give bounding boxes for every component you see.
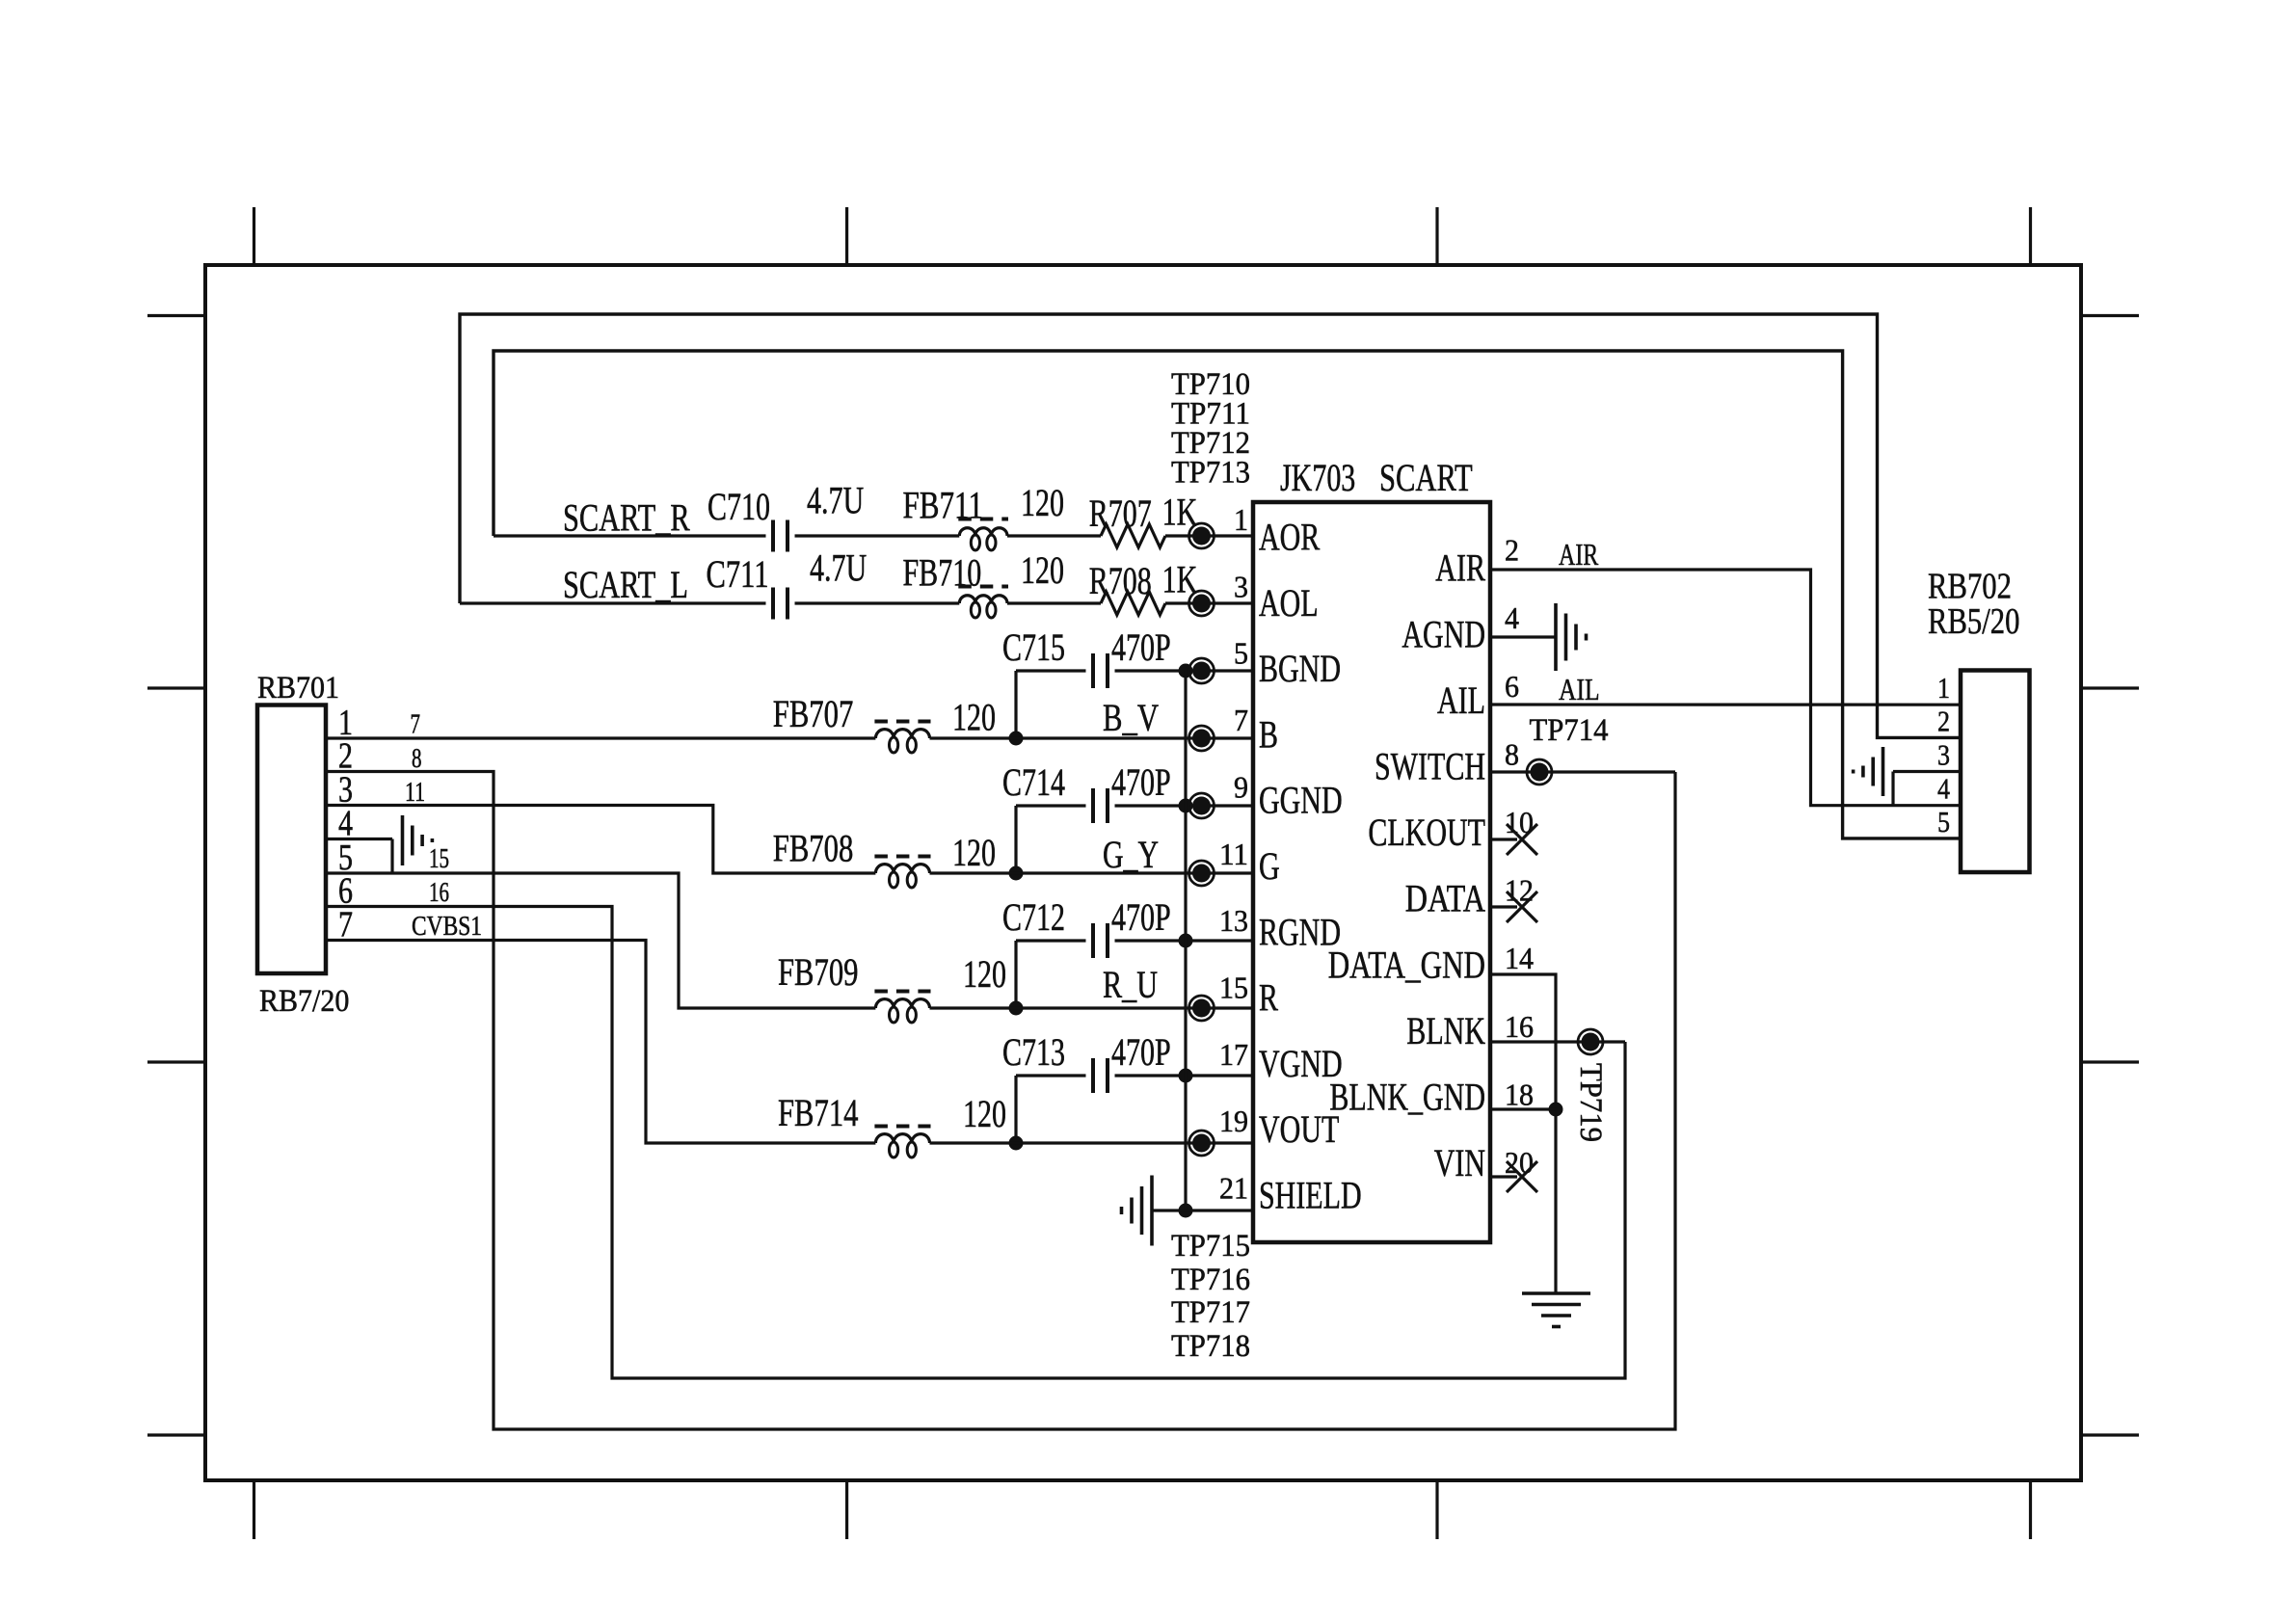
wire C713 down to signal row	[1014, 1076, 1017, 1143]
svg-text:120: 120	[952, 695, 996, 738]
svg-text:120: 120	[1021, 548, 1064, 592]
wire C714 down to signal row	[1014, 806, 1017, 873]
svg-text:2: 2	[1505, 533, 1519, 568]
svg-text:3: 3	[1937, 738, 1950, 772]
svg-text:16: 16	[429, 878, 449, 908]
svg-text:C712: C712	[1002, 895, 1065, 939]
wire SCART_L loop to RB702 pin2	[460, 314, 1961, 737]
svg-text:VIN: VIN	[1434, 1141, 1485, 1184]
svg-text:DATA_GND: DATA_GND	[1328, 943, 1485, 986]
wire RB702 pin3-pin4 tie	[1891, 772, 1894, 806]
svg-text:C713: C713	[1002, 1030, 1065, 1074]
resistor R707	[1101, 524, 1165, 547]
resistor R708	[1101, 592, 1165, 615]
wire RB701 pin5 net 15 to FB709	[326, 873, 875, 1008]
wire AIL pin6 to RB702 pin1	[1490, 703, 1961, 705]
svg-text:BGND: BGND	[1259, 647, 1341, 690]
svg-text:AIR: AIR	[1435, 546, 1485, 590]
wire SCART_R to C710	[494, 534, 766, 537]
svg-text:TP719: TP719	[1573, 1063, 1608, 1142]
capacitor C710	[773, 520, 788, 552]
test point TP719 at BLNK	[1578, 1029, 1603, 1054]
svg-text:BLNK: BLNK	[1406, 1009, 1485, 1052]
junction bus at pin 5 row	[1179, 664, 1193, 678]
wire C715 left	[1016, 669, 1086, 672]
wire C712 to pin 13	[1115, 939, 1254, 942]
wire SCART_R loop to RB702 pin5	[494, 351, 1961, 838]
svg-text:FB711: FB711	[903, 483, 984, 526]
test point at pin19 VOUT	[1189, 1131, 1215, 1156]
wire R708 to pin3 AOL	[1165, 601, 1253, 604]
connector JK703 SCART body	[1253, 502, 1490, 1242]
svg-text:AIL: AIL	[1437, 678, 1485, 722]
wire C715 down to signal row	[1014, 671, 1017, 738]
svg-text:120: 120	[1021, 481, 1064, 524]
ground bus vertical	[1184, 671, 1187, 1211]
wire FB714 to pin19 VOUT	[930, 1141, 1254, 1144]
ferrite bead FB707	[874, 722, 930, 754]
svg-text:19: 19	[1219, 1104, 1248, 1138]
wire RB702 pin3	[1893, 770, 1961, 773]
svg-text:G_Y: G_Y	[1103, 833, 1159, 876]
junction C713 tap on signal row	[1009, 1136, 1024, 1151]
svg-text:4: 4	[1937, 772, 1950, 806]
svg-text:C714: C714	[1002, 760, 1065, 804]
wire C714 to pin 9	[1115, 804, 1254, 807]
ferrite bead FB708	[874, 857, 930, 889]
test point at pin15 R	[1189, 996, 1215, 1021]
wire C713 left	[1016, 1074, 1086, 1077]
svg-text:BLNK_GND: BLNK_GND	[1329, 1076, 1485, 1119]
svg-text:SCART_R: SCART_R	[563, 496, 690, 540]
wire ground to pin21 SHIELD	[1153, 1209, 1253, 1211]
capacitor C714	[1093, 788, 1108, 823]
svg-text:R708: R708	[1089, 559, 1152, 602]
wire C710 to FB711	[795, 534, 960, 537]
ground (RB702 pins 3-4)	[1854, 747, 1883, 796]
wire RB701 pin7 CVBS1 to FB714	[326, 941, 875, 1144]
stub pin 20	[1490, 1175, 1517, 1178]
wire FB710 to R708	[1007, 601, 1101, 604]
test point TP710 at pin1	[1189, 523, 1215, 548]
ground (RB701 pins 4-5)	[403, 815, 433, 865]
svg-text:B_V: B_V	[1103, 696, 1159, 739]
svg-text:SHIELD: SHIELD	[1259, 1174, 1362, 1217]
svg-text:CVBS1: CVBS1	[412, 912, 482, 942]
svg-text:AIL: AIL	[1559, 672, 1600, 706]
junction C712 tap on signal row	[1009, 1001, 1024, 1016]
junction C714 tap on signal row	[1009, 866, 1024, 881]
svg-text:13: 13	[1219, 903, 1248, 938]
junction BLNK_GND on ground drop	[1549, 1103, 1563, 1117]
svg-text:AGND: AGND	[1402, 612, 1485, 655]
svg-text:FB714: FB714	[778, 1091, 859, 1134]
svg-text:AOR: AOR	[1259, 516, 1321, 559]
no-connect X pin 20	[1507, 1161, 1537, 1192]
wire RB701 pin4 to ground	[326, 838, 392, 840]
capacitor C715	[1093, 653, 1108, 688]
svg-text:3: 3	[1234, 569, 1248, 603]
test point TP711 at pin3	[1189, 591, 1215, 616]
wire RB701 pin2 net 8 to SWITCH pin8	[326, 772, 1675, 1430]
capacitor C711	[773, 588, 788, 620]
svg-text:SCART_L: SCART_L	[563, 563, 688, 606]
connector RB702 body	[1961, 671, 2030, 873]
svg-text:470P: 470P	[1111, 625, 1171, 669]
no-connect X pin 12	[1507, 891, 1537, 922]
wire RB701 pin6 net 16 to BLNK pin16	[326, 907, 1625, 1379]
svg-text:470P: 470P	[1111, 760, 1171, 804]
wire C712 down to signal row	[1014, 941, 1017, 1008]
svg-text:RB5/20: RB5/20	[1928, 601, 2019, 642]
junction bus at pin 13 row	[1179, 934, 1193, 948]
wire C715 to pin 5	[1115, 669, 1254, 672]
svg-text:14: 14	[1505, 941, 1534, 975]
test point at pin9 GGND	[1189, 793, 1215, 818]
wire C713 to pin 17	[1115, 1074, 1254, 1077]
svg-text:8: 8	[412, 744, 422, 774]
svg-text:TP715: TP715	[1171, 1229, 1250, 1264]
stub pin 10	[1490, 838, 1517, 840]
svg-text:11: 11	[1219, 837, 1248, 871]
svg-text:C711: C711	[707, 552, 769, 596]
svg-text:5: 5	[1937, 805, 1950, 838]
svg-text:4.7U: 4.7U	[807, 479, 864, 522]
earth ground symbol (DATA_GND/BLNK_GND)	[1522, 1293, 1590, 1327]
svg-text:SWITCH: SWITCH	[1375, 745, 1485, 788]
border frame	[205, 265, 2081, 1480]
wire C711 to FB710	[795, 601, 960, 604]
svg-text:11: 11	[405, 778, 425, 808]
svg-text:1: 1	[1937, 671, 1950, 705]
wire AIR pin2 to RB702 pin4	[1490, 570, 1893, 806]
svg-text:7: 7	[411, 710, 421, 740]
ground (AGND)	[1556, 603, 1587, 671]
svg-text:FB707: FB707	[773, 692, 854, 735]
svg-text:FB709: FB709	[778, 950, 859, 994]
svg-text:SCART: SCART	[1379, 456, 1473, 499]
svg-text:GGND: GGND	[1259, 779, 1343, 822]
wire C712 left	[1016, 939, 1086, 942]
wire FB711 to R707	[1007, 534, 1101, 537]
wire BLNK_GND pin18	[1490, 1107, 1556, 1110]
svg-text:470P: 470P	[1111, 895, 1171, 939]
junction bus at pin 9 row	[1179, 799, 1193, 813]
svg-text:AIR: AIR	[1559, 537, 1599, 572]
svg-text:16: 16	[1505, 1009, 1534, 1044]
wire SCART_L to C711	[460, 601, 766, 604]
svg-text:G: G	[1259, 844, 1280, 888]
svg-text:4: 4	[1505, 600, 1519, 635]
stub pin 12	[1490, 905, 1517, 908]
svg-text:6: 6	[1505, 669, 1519, 704]
svg-text:9: 9	[1234, 769, 1248, 804]
svg-text:FB708: FB708	[773, 827, 854, 870]
wire C714 left	[1016, 804, 1086, 807]
ferrite bead FB709	[874, 992, 930, 1024]
wire RB701 pin4-pin5 tie	[390, 839, 393, 874]
svg-text:RB7/20: RB7/20	[259, 984, 349, 1019]
junction C715 tap on signal row	[1009, 732, 1024, 746]
wire DATA_GND pin14 down to ground	[1490, 974, 1556, 1293]
wire RB702 pin4	[1893, 804, 1961, 807]
wire SWITCH pin8 to net 8 corner	[1490, 770, 1675, 773]
svg-text:17: 17	[1219, 1037, 1248, 1072]
svg-text:TP714: TP714	[1530, 713, 1609, 748]
ground (SHIELD)	[1122, 1176, 1153, 1246]
svg-text:R: R	[1259, 976, 1278, 1020]
wire R707 to pin1 AOR	[1165, 534, 1253, 537]
ferrite bead FB714	[874, 1127, 930, 1158]
svg-text:8: 8	[1505, 736, 1519, 771]
capacitor C712	[1093, 923, 1108, 958]
svg-text:5: 5	[1234, 636, 1248, 671]
svg-text:18: 18	[1505, 1077, 1534, 1111]
wire FB707 to pin7 B	[930, 736, 1254, 739]
test point at pin11 G	[1189, 861, 1215, 886]
wire BLNK pin16	[1490, 1040, 1625, 1043]
svg-text:470P: 470P	[1111, 1030, 1171, 1074]
svg-text:120: 120	[963, 952, 1006, 996]
ferrite bead FB710	[958, 587, 1008, 619]
svg-text:R707: R707	[1089, 492, 1152, 535]
svg-text:C715: C715	[1002, 625, 1065, 669]
test point at pin5 BGND	[1189, 658, 1215, 683]
svg-text:TP718: TP718	[1171, 1329, 1250, 1364]
junction bus at pin 17 row	[1179, 1069, 1193, 1083]
svg-text:1: 1	[1234, 502, 1248, 537]
wire AGND pin4 to ground	[1490, 635, 1556, 638]
svg-text:TP716: TP716	[1171, 1263, 1250, 1297]
svg-text:21: 21	[1219, 1171, 1248, 1206]
svg-text:B: B	[1259, 712, 1278, 756]
svg-text:15: 15	[1219, 970, 1248, 1004]
connector RB701 body	[257, 705, 326, 974]
test point at pin7 B	[1189, 726, 1215, 751]
wire RB701 pin3 net 11 to FB708	[326, 806, 875, 874]
wire RB701 pin1 net 7 to FB707	[326, 736, 875, 739]
test point TP714 at SWITCH	[1527, 759, 1552, 785]
ferrite bead FB711	[958, 519, 1008, 551]
wire FB709 to pin15 R	[930, 1006, 1254, 1009]
svg-text:C710: C710	[707, 485, 770, 528]
capacitor C713	[1093, 1058, 1108, 1093]
svg-text:AOL: AOL	[1259, 581, 1319, 625]
svg-text:15: 15	[429, 844, 449, 874]
svg-text:JK703: JK703	[1280, 456, 1355, 499]
svg-text:4.7U: 4.7U	[810, 546, 867, 590]
svg-text:RB701: RB701	[257, 671, 339, 705]
svg-text:DATA: DATA	[1405, 877, 1485, 920]
no-connect X pin 10	[1507, 824, 1537, 855]
junction bus at pin 21 SHIELD row	[1179, 1204, 1193, 1218]
svg-text:120: 120	[952, 831, 996, 874]
svg-text:120: 120	[963, 1092, 1006, 1135]
svg-text:FB710: FB710	[903, 550, 982, 594]
svg-text:7: 7	[338, 905, 353, 945]
svg-text:VOUT: VOUT	[1259, 1107, 1339, 1151]
svg-text:R_U: R_U	[1103, 963, 1158, 1006]
svg-text:7: 7	[1234, 703, 1248, 737]
svg-text:TP713: TP713	[1171, 456, 1250, 491]
svg-text:CLKOUT: CLKOUT	[1368, 811, 1485, 854]
wire FB708 to pin11 G	[930, 871, 1254, 874]
svg-text:TP717: TP717	[1171, 1295, 1250, 1330]
svg-text:2: 2	[1937, 704, 1950, 737]
